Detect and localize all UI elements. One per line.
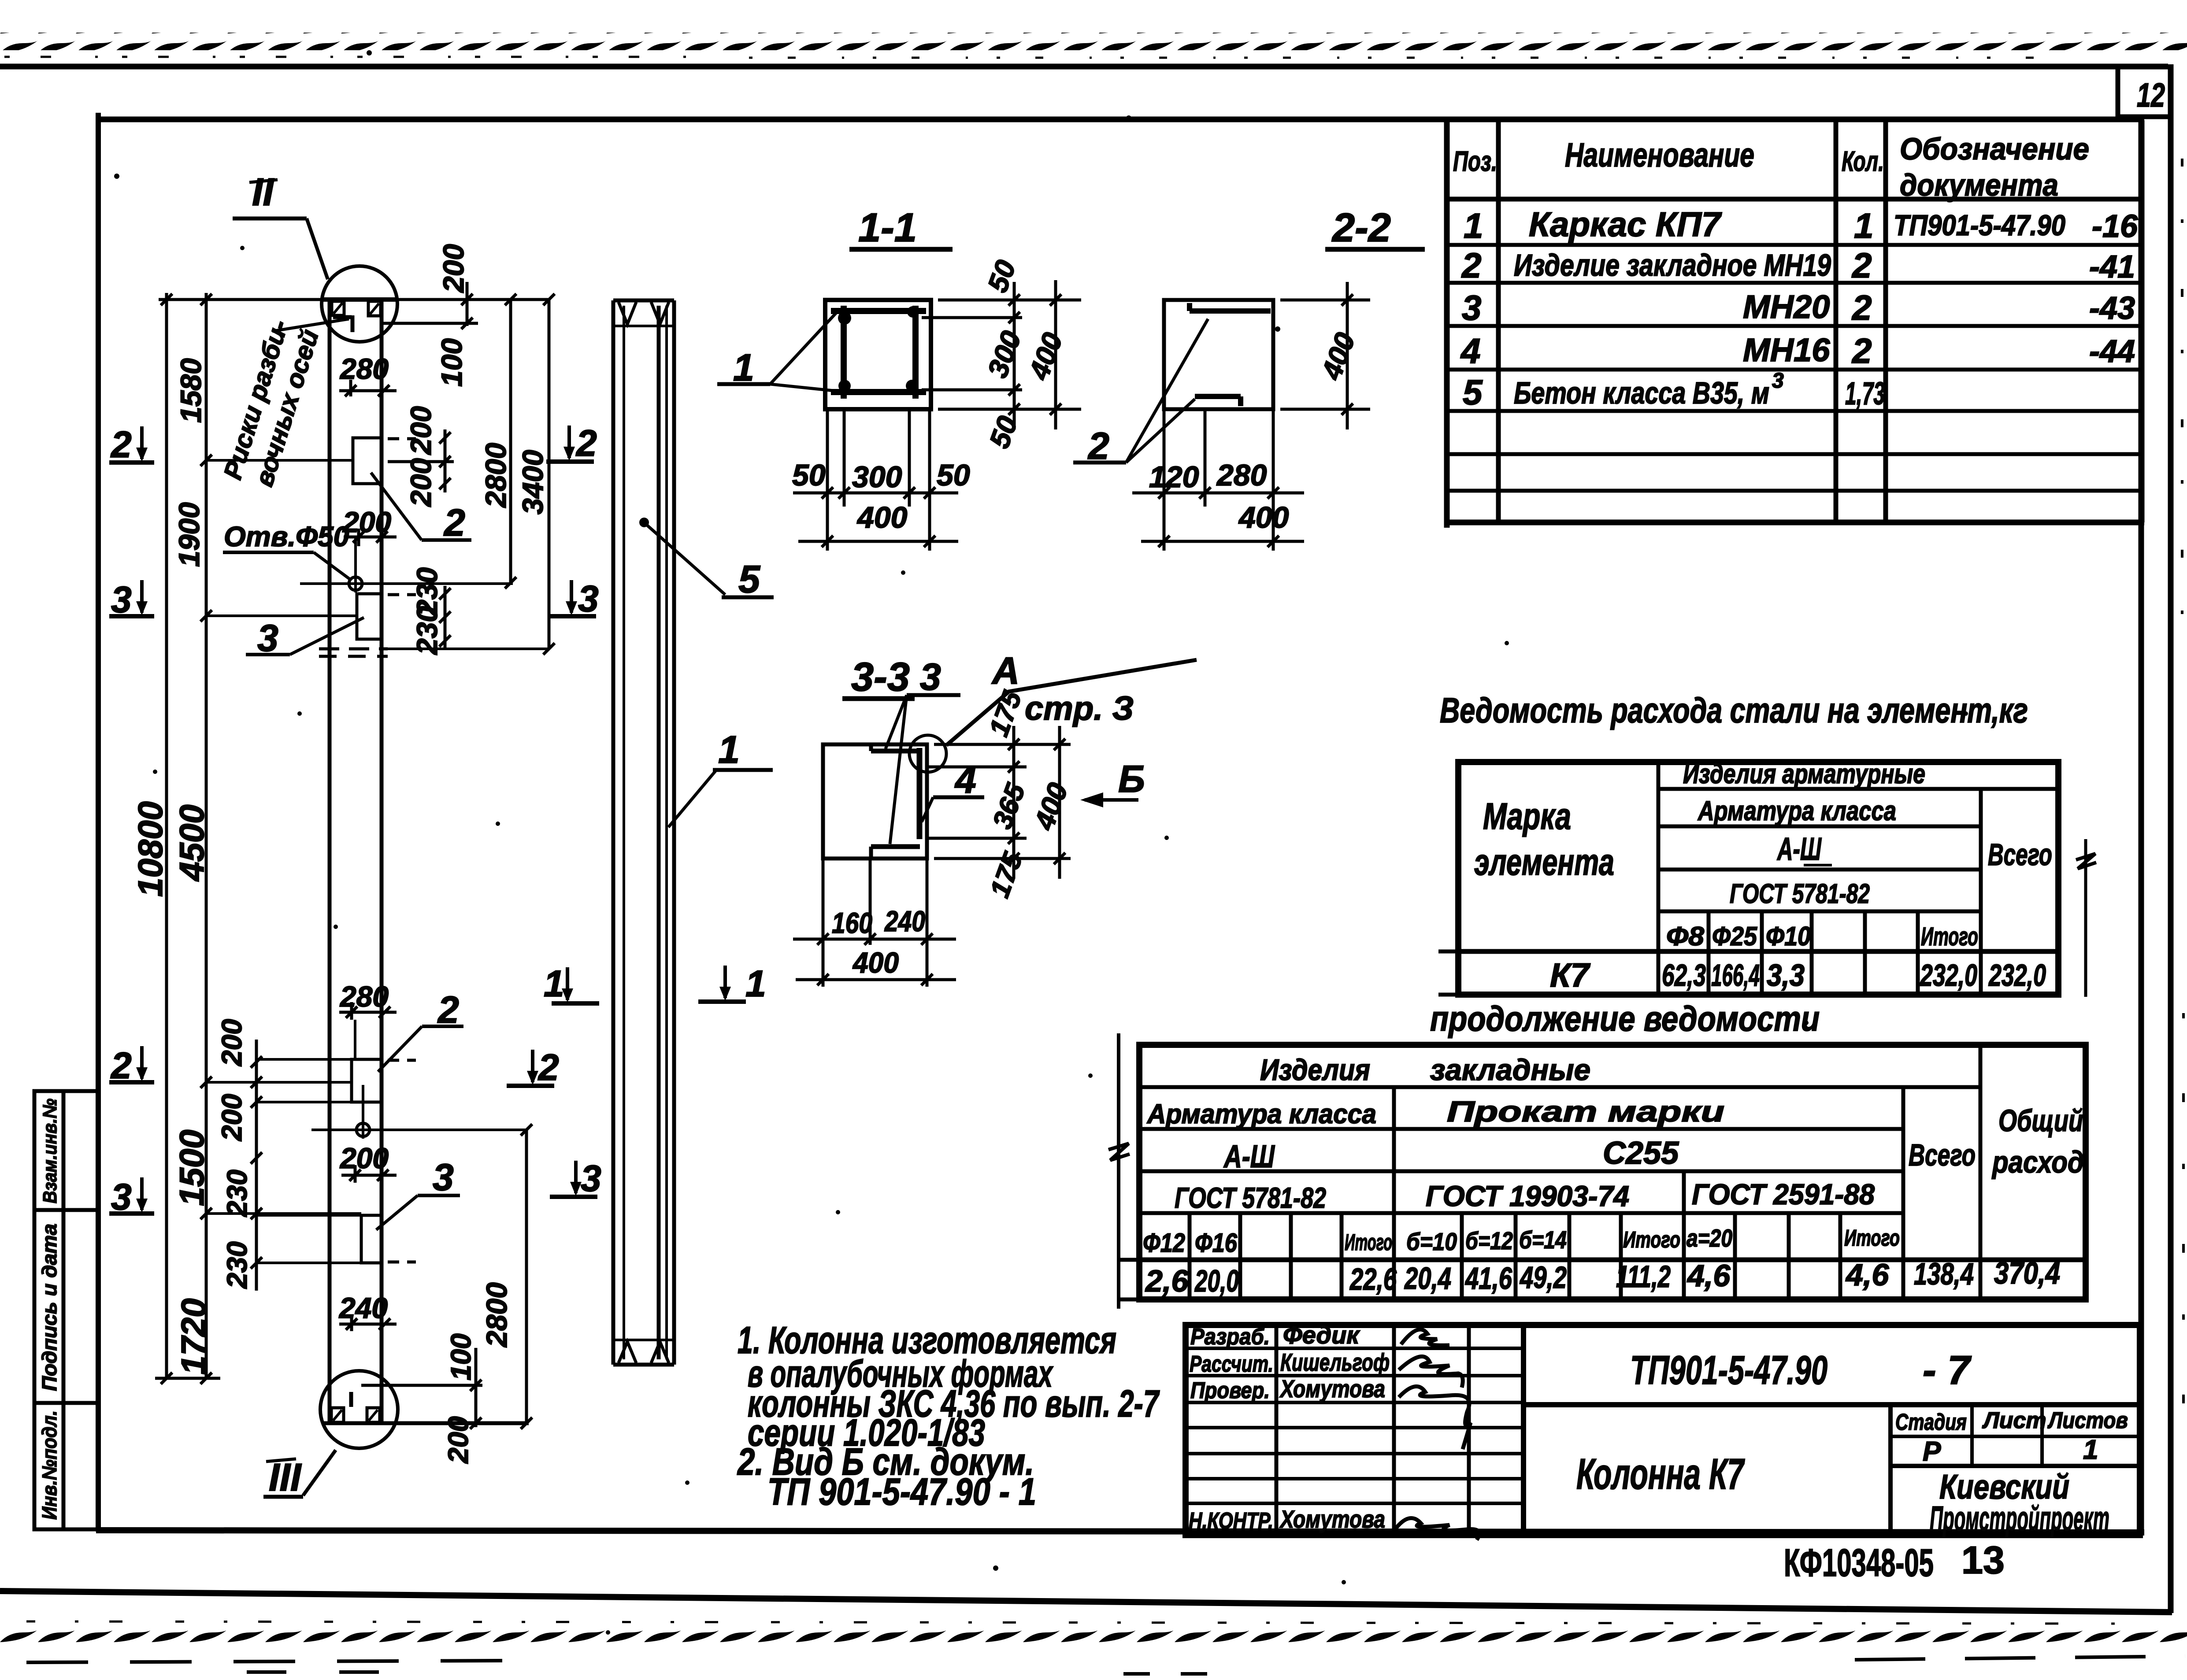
svg-text:Кишельгоф: Кишельгоф bbox=[1280, 1348, 1390, 1376]
section 2-2 bottom dims bbox=[1132, 409, 1304, 551]
svg-text:Хомутова: Хомутова bbox=[1279, 1505, 1385, 1533]
svg-text:К7: К7 bbox=[1550, 957, 1591, 994]
svg-text:200: 200 bbox=[437, 244, 470, 293]
sheet bottom edge line bbox=[0, 1591, 2172, 1612]
svg-text:370,4: 370,4 bbox=[1994, 1256, 2060, 1290]
svg-text:Подпись и дата: Подпись и дата bbox=[38, 1224, 61, 1391]
svg-text:3,3: 3,3 bbox=[1767, 958, 1805, 992]
svg-text:Лист: Лист bbox=[1982, 1408, 2046, 1433]
section 3-3 detail circle bbox=[909, 735, 946, 772]
section mark 1 bottom right bbox=[698, 963, 766, 1004]
svg-text:Всего: Всего bbox=[1909, 1138, 1976, 1172]
svg-text:1: 1 bbox=[1464, 206, 1483, 245]
svg-text:элемента: элемента bbox=[1474, 841, 1614, 883]
svg-text:200: 200 bbox=[342, 506, 391, 538]
svg-text:3: 3 bbox=[581, 1158, 601, 1199]
section 3-3 embed plates bbox=[871, 745, 920, 857]
svg-text:а=20: а=20 bbox=[1687, 1224, 1732, 1252]
view arrow B bbox=[1080, 758, 1145, 807]
column K7 side view bbox=[613, 300, 674, 1365]
specification table frame bbox=[1444, 120, 2144, 528]
section 1-1 right dims bbox=[922, 280, 1081, 429]
svg-text:4500: 4500 bbox=[172, 804, 211, 882]
svg-text:4: 4 bbox=[954, 759, 976, 801]
svg-text:б=14: б=14 bbox=[1519, 1226, 1567, 1254]
column K7 front view body bbox=[323, 300, 529, 1423]
svg-text:400: 400 bbox=[1238, 501, 1289, 534]
svg-text:Прокат марки: Прокат марки bbox=[1447, 1095, 1724, 1128]
svg-text:1,73: 1,73 bbox=[1845, 376, 1885, 411]
svg-text:Ф8: Ф8 bbox=[1666, 921, 1705, 951]
label Otv50 with leader bbox=[223, 521, 351, 580]
svg-text:Всего: Всего bbox=[1988, 837, 2052, 872]
sheet bottom speckle line bbox=[26, 1621, 2115, 1624]
label III with leader bbox=[263, 1450, 336, 1499]
embed notch MH19 upper bbox=[353, 438, 416, 484]
svg-text:МН16: МН16 bbox=[1743, 332, 1830, 368]
svg-text:расход: расход bbox=[1991, 1145, 2084, 1179]
svg-text:300: 300 bbox=[852, 460, 902, 494]
svg-text:А: А bbox=[991, 650, 1019, 692]
section mark 3 left lower bbox=[109, 1176, 154, 1217]
svg-text:3: 3 bbox=[920, 656, 941, 698]
section 2-2 embed plates bbox=[1190, 303, 1271, 406]
dim 280 upper bbox=[339, 380, 397, 396]
svg-text:Изделие закладное МН19: Изделие закладное МН19 bbox=[1514, 248, 1831, 282]
prodolzhenie table frame bbox=[1108, 1033, 2086, 1309]
svg-text:Итого: Итого bbox=[1921, 922, 1978, 951]
svg-text:1580: 1580 bbox=[174, 358, 207, 423]
svg-text:-44: -44 bbox=[2089, 334, 2135, 369]
svg-text:3: 3 bbox=[433, 1156, 454, 1199]
right dim 2800 upper bbox=[505, 294, 516, 588]
section 2-2 right dim 400 bbox=[1280, 282, 1370, 429]
leader 5 to side view bbox=[639, 518, 774, 601]
sheet top edge line bbox=[0, 64, 2168, 70]
svg-text:Каркас КП7: Каркас КП7 bbox=[1529, 205, 1722, 244]
label II with leader bbox=[233, 170, 328, 279]
svg-text:13: 13 bbox=[1961, 1538, 2005, 1582]
signatures bbox=[1396, 1329, 1479, 1540]
front view top detail circle II bbox=[322, 266, 397, 342]
svg-text:1: 1 bbox=[2083, 1435, 2098, 1465]
svg-text:б=12: б=12 bbox=[1465, 1227, 1513, 1254]
svg-text:166,4: 166,4 bbox=[1711, 958, 1760, 992]
svg-text:Итого: Итого bbox=[1844, 1225, 1900, 1251]
dim 200 200 upper notch bbox=[388, 429, 454, 492]
svg-text:4,6: 4,6 bbox=[1845, 1258, 1889, 1292]
svg-text:1: 1 bbox=[1854, 206, 1874, 245]
svg-text:-16: -16 bbox=[2092, 209, 2138, 244]
svg-text:50: 50 bbox=[937, 459, 970, 492]
right edge dashed artifacts bbox=[2182, 159, 2183, 1410]
svg-text:1-1: 1-1 bbox=[858, 205, 917, 250]
cut line 2-2 upper bbox=[206, 459, 353, 462]
section 1-1 title bbox=[849, 205, 953, 250]
svg-text:Р: Р bbox=[1923, 1436, 1941, 1467]
section mark 1 bottom left bbox=[544, 963, 599, 1004]
frame bottom border bbox=[96, 1530, 2144, 1532]
svg-text:4: 4 bbox=[1460, 331, 1481, 370]
svg-text:Ф10: Ф10 bbox=[1766, 921, 1811, 951]
svg-text:документа: документа bbox=[1900, 168, 2058, 202]
rebar corner dots bbox=[838, 306, 919, 392]
left margin attribute boxes bbox=[34, 1091, 98, 1529]
leader 2 upper bbox=[371, 473, 471, 544]
svg-text:ГОСТ 5781-82: ГОСТ 5781-82 bbox=[1730, 879, 1870, 909]
svg-text:400: 400 bbox=[852, 946, 899, 979]
right dim 200-100 top bbox=[382, 282, 478, 329]
svg-text:100: 100 bbox=[435, 338, 468, 387]
svg-text:280: 280 bbox=[1216, 459, 1267, 492]
svg-text:Общий: Общий bbox=[1998, 1103, 2083, 1138]
section 2-2 concrete outline bbox=[1164, 300, 1273, 409]
svg-text:Наименование: Наименование bbox=[1565, 137, 1754, 174]
svg-text:А-Ш: А-Ш bbox=[1777, 832, 1822, 867]
svg-text:2: 2 bbox=[1851, 288, 1872, 327]
svg-text:200: 200 bbox=[404, 406, 437, 455]
svg-text:49,2: 49,2 bbox=[1519, 1260, 1567, 1295]
svg-text:Б: Б bbox=[1118, 758, 1145, 800]
svg-text:Кол.: Кол. bbox=[1842, 145, 1884, 177]
right dim 3400 bbox=[543, 294, 555, 655]
svg-text:22,6: 22,6 bbox=[1349, 1262, 1397, 1296]
svg-text:62,3: 62,3 bbox=[1662, 958, 1706, 992]
svg-text:200: 200 bbox=[216, 1019, 248, 1066]
svg-text:Арматура класса: Арматура класса bbox=[1697, 796, 1896, 826]
frame left border bbox=[96, 113, 101, 1532]
frame top border bbox=[96, 117, 2144, 122]
section 3-3 title bbox=[842, 655, 915, 699]
sheet bottom rope edge bbox=[0, 1631, 2187, 1648]
leader 2 section 2-2 bbox=[1073, 319, 1208, 467]
svg-text:стр. З: стр. З bbox=[1025, 690, 1134, 727]
svg-text:Марка: Марка bbox=[1483, 796, 1571, 837]
svg-text:Разраб.: Разраб. bbox=[1190, 1324, 1270, 1350]
svg-text:232,0: 232,0 bbox=[1920, 958, 1978, 992]
svg-text:2800: 2800 bbox=[479, 443, 512, 508]
svg-text:Инв.№подл.: Инв.№подл. bbox=[38, 1410, 61, 1520]
notch extension lines lower bbox=[256, 1020, 361, 1263]
leader 4 section 3-3 bbox=[922, 759, 984, 822]
svg-text:2: 2 bbox=[443, 502, 465, 544]
section cut bottom dashed bbox=[319, 649, 549, 656]
svg-text:100: 100 bbox=[445, 1333, 477, 1380]
dim 280 lower bbox=[339, 1002, 397, 1020]
svg-text:3: 3 bbox=[111, 579, 132, 620]
leader 1 to side view bbox=[668, 728, 773, 827]
svg-text:1500: 1500 bbox=[172, 1129, 211, 1206]
section 1-1 rebar cage bbox=[831, 306, 926, 399]
leader 1 section 1-1 bbox=[717, 311, 838, 391]
svg-text:закладные: закладные bbox=[1430, 1053, 1590, 1087]
riska note rotated bbox=[218, 317, 349, 490]
svg-text:10800: 10800 bbox=[131, 801, 170, 897]
svg-text:3-3: 3-3 bbox=[851, 655, 910, 699]
svg-text:С255: С255 bbox=[1603, 1136, 1679, 1171]
svg-text:1: 1 bbox=[718, 728, 740, 771]
svg-text:Бетон класса В35, м: Бетон класса В35, м bbox=[1514, 376, 1769, 410]
svg-text:Колонна К7: Колонна К7 bbox=[1576, 1450, 1745, 1498]
svg-text:Ф25: Ф25 bbox=[1712, 921, 1757, 951]
svg-text:Отв.Ф50: Отв.Ф50 bbox=[224, 521, 349, 552]
svg-text:2: 2 bbox=[110, 424, 132, 465]
section mark 3 left upper bbox=[109, 579, 154, 620]
svg-text:280: 280 bbox=[339, 980, 389, 1013]
svg-text:ГОСТ 2591-88: ГОСТ 2591-88 bbox=[1692, 1178, 1875, 1210]
svg-text:1: 1 bbox=[544, 963, 564, 1004]
sheet top rope edge bbox=[0, 33, 2187, 50]
section 1-1 bottom dims bbox=[793, 409, 958, 551]
title block frame bbox=[1186, 1325, 2140, 1535]
dim 200 hole upper bbox=[344, 529, 397, 546]
embed notch MH19 lower bbox=[352, 1059, 416, 1102]
hole lower bbox=[311, 1085, 526, 1139]
svg-text:2: 2 bbox=[537, 1047, 559, 1088]
svg-text:4,6: 4,6 bbox=[1687, 1258, 1731, 1293]
page number box 12 bbox=[2118, 67, 2173, 119]
svg-text:120: 120 bbox=[1149, 460, 1199, 494]
svg-text:3400: 3400 bbox=[516, 450, 549, 514]
svg-text:Изделия: Изделия bbox=[1260, 1053, 1370, 1087]
svg-text:5: 5 bbox=[1463, 373, 1483, 412]
svg-text:280: 280 bbox=[339, 352, 389, 385]
svg-text:Ф16: Ф16 bbox=[1195, 1228, 1238, 1258]
svg-text:Хомутова: Хомутова bbox=[1279, 1375, 1385, 1402]
svg-text:3: 3 bbox=[1772, 369, 1784, 392]
svg-text:200: 200 bbox=[339, 1142, 389, 1174]
svg-text:ТП901-5-47.90: ТП901-5-47.90 bbox=[1630, 1348, 1827, 1393]
svg-text:А-Ш: А-Ш bbox=[1223, 1139, 1275, 1174]
svg-text:12: 12 bbox=[2137, 77, 2165, 114]
svg-text:230: 230 bbox=[221, 1169, 253, 1217]
svg-text:111,2: 111,2 bbox=[1616, 1259, 1671, 1294]
svg-text:продолжение ведомости: продолжение ведомости bbox=[1430, 999, 1820, 1038]
top dimension line bbox=[159, 298, 549, 301]
scan noise dots bbox=[114, 50, 1968, 1635]
leader 2 lower bbox=[378, 989, 463, 1072]
svg-text:Н.КОНТР.: Н.КОНТР. bbox=[1189, 1508, 1273, 1534]
dimension line 10800 bbox=[165, 293, 168, 1378]
bottom dimension line bbox=[155, 1377, 220, 1380]
svg-text:240: 240 bbox=[884, 905, 925, 937]
vedomost table frame bbox=[1438, 762, 2096, 997]
svg-text:5: 5 bbox=[738, 557, 760, 601]
frame right border bbox=[2139, 119, 2144, 1535]
dim ticks left chains bbox=[161, 294, 212, 1384]
lower small dims 200 200 230 230 bbox=[251, 1040, 262, 1291]
svg-text:-43: -43 bbox=[2089, 291, 2135, 326]
embed notch MH16 lower bbox=[361, 1215, 416, 1263]
cut line lower 2 bbox=[206, 1081, 352, 1084]
leader 3 section 3-3 bbox=[886, 656, 960, 844]
svg-text:160: 160 bbox=[832, 907, 872, 939]
dim 200 lower bbox=[341, 1165, 397, 1183]
svg-text:200: 200 bbox=[404, 458, 437, 507]
svg-text:II: II bbox=[252, 170, 274, 214]
svg-text:ГОСТ 19903-74: ГОСТ 19903-74 bbox=[1426, 1180, 1629, 1212]
dim 100 200 bottom right bbox=[361, 1348, 482, 1429]
dimension chain 1580-1720 bbox=[205, 293, 208, 1378]
svg-text:3: 3 bbox=[111, 1176, 132, 1217]
svg-text:КФ10348-05: КФ10348-05 bbox=[1784, 1541, 1934, 1584]
svg-text:2: 2 bbox=[1461, 246, 1482, 285]
svg-text:Ф12: Ф12 bbox=[1143, 1228, 1185, 1258]
sheet right edge line bbox=[2168, 64, 2174, 1613]
svg-text:Поз.: Поз. bbox=[1453, 145, 1497, 177]
section 3-3 bottom dims bbox=[793, 859, 956, 987]
section mark 2 left lower bbox=[109, 1045, 154, 1086]
svg-text:Промстройпроект: Промстройпроект bbox=[1930, 1499, 2109, 1538]
svg-text:МН20: МН20 bbox=[1743, 289, 1830, 325]
svg-text:Ведомость расхода стали на: Ведомость расхода стали на элемент,кг bbox=[1440, 691, 2028, 730]
svg-text:2-2: 2-2 bbox=[1331, 205, 1391, 250]
svg-text:Итого: Итого bbox=[1623, 1227, 1680, 1253]
svg-text:2: 2 bbox=[1851, 331, 1872, 370]
leader 3 upper bbox=[246, 617, 364, 659]
section mark 3 right upper bbox=[549, 578, 599, 619]
svg-text:Стадия: Стадия bbox=[1895, 1410, 1967, 1435]
svg-text:20,0: 20,0 bbox=[1194, 1264, 1239, 1298]
svg-text:2800: 2800 bbox=[480, 1282, 513, 1348]
svg-text:ТП901-5-47.90: ТП901-5-47.90 bbox=[1894, 209, 2065, 241]
dim 230 230 upper notch2 bbox=[439, 586, 451, 648]
section mark 3 right lower bbox=[550, 1158, 601, 1199]
svg-text:б=10: б=10 bbox=[1406, 1228, 1457, 1255]
svg-text:Арматура класса: Арматура класса bbox=[1146, 1099, 1376, 1129]
svg-text:Провер.: Провер. bbox=[1190, 1378, 1270, 1403]
svg-text:138,4: 138,4 bbox=[1914, 1257, 1974, 1291]
svg-text:41,6: 41,6 bbox=[1464, 1261, 1512, 1295]
svg-text:2,6: 2,6 bbox=[1145, 1264, 1189, 1298]
svg-text:400: 400 bbox=[856, 501, 908, 534]
svg-text:20,4: 20,4 bbox=[1404, 1261, 1451, 1295]
svg-text:230: 230 bbox=[221, 1241, 253, 1289]
dim 2800 lower bbox=[521, 1124, 532, 1429]
hole Otv50 upper bbox=[300, 537, 513, 592]
svg-text:230: 230 bbox=[411, 606, 443, 655]
embed notch MH20 upper bbox=[357, 594, 416, 639]
section mark 2 left upper bbox=[109, 424, 154, 465]
svg-text:-41: -41 bbox=[2089, 249, 2135, 285]
svg-text:2: 2 bbox=[1851, 246, 1872, 285]
cut line lower 3 bbox=[206, 1212, 361, 1215]
svg-text:Итого: Итого bbox=[1345, 1230, 1392, 1255]
svg-text:Изделия арматурные: Изделия арматурные bbox=[1683, 759, 1925, 789]
sheet top speckle line bbox=[4, 57, 2049, 58]
section 3-3 concrete outline bbox=[823, 744, 927, 859]
svg-text:Обозначение: Обозначение bbox=[1900, 132, 2089, 166]
svg-text:- 7: - 7 bbox=[1923, 1348, 1972, 1393]
section 2-2 title bbox=[1325, 205, 1425, 250]
svg-text:Листов: Листов bbox=[2047, 1408, 2128, 1433]
svg-text:ТП 901-5-47.90 - 1: ТП 901-5-47.90 - 1 bbox=[767, 1471, 1036, 1513]
section mark 2 right upper bbox=[546, 422, 597, 464]
svg-text:3: 3 bbox=[578, 578, 599, 619]
section 3-3 right dims bbox=[925, 726, 1071, 879]
bottom stray dashes bbox=[26, 1656, 2185, 1674]
svg-text:ГОСТ 5781-82: ГОСТ 5781-82 bbox=[1175, 1181, 1326, 1214]
svg-text:200: 200 bbox=[216, 1094, 248, 1141]
svg-text:50: 50 bbox=[792, 459, 826, 492]
svg-text:1: 1 bbox=[745, 963, 766, 1004]
section 1-1 concrete outline bbox=[825, 300, 931, 409]
cut line 3-3 upper bbox=[206, 614, 357, 617]
svg-text:Федик: Федик bbox=[1283, 1321, 1360, 1349]
svg-text:3: 3 bbox=[1462, 288, 1482, 327]
leader 3 lower bbox=[376, 1156, 460, 1230]
svg-text:Рассчит.: Рассчит. bbox=[1190, 1351, 1273, 1377]
callout A str3 bbox=[946, 650, 1197, 745]
svg-text:240: 240 bbox=[338, 1291, 388, 1324]
svg-text:200: 200 bbox=[442, 1416, 474, 1464]
dim 240 lower bbox=[339, 1315, 397, 1331]
svg-text:1900: 1900 bbox=[173, 502, 205, 567]
svg-text:1720: 1720 bbox=[174, 1298, 213, 1375]
svg-text:2: 2 bbox=[110, 1045, 132, 1086]
section mark 2 right lower bbox=[507, 1047, 559, 1088]
svg-text:Взам.инв.№: Взам.инв.№ bbox=[39, 1099, 61, 1203]
svg-text:2: 2 bbox=[575, 422, 597, 464]
svg-text:232,0: 232,0 bbox=[1988, 958, 2046, 992]
front view bottom detail circle III bbox=[320, 1371, 398, 1448]
